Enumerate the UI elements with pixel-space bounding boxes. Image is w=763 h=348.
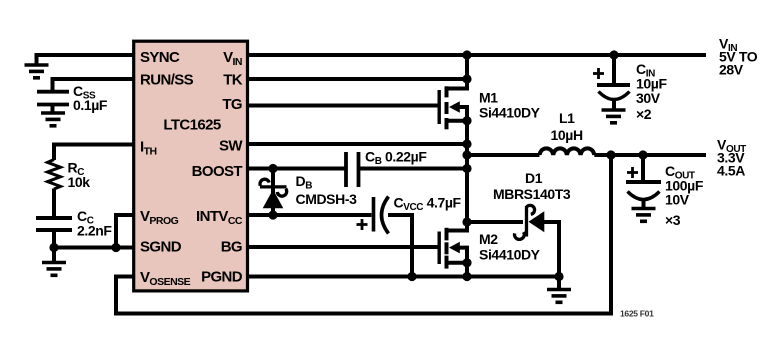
svg-text:TG: TG (222, 96, 242, 113)
wire RUN/SS pin to CSS (53, 79, 134, 91)
svg-text:CMDSH-3: CMDSH-3 (296, 191, 358, 207)
inductor L1 10uH (540, 148, 595, 155)
svg-text:10k: 10k (68, 174, 91, 190)
diode DB CMDSH-3 (BOOST to INTVCC) (260, 169, 287, 216)
wire CC to ground (52, 232, 56, 263)
svg-text:10V: 10V (665, 192, 690, 208)
svg-text:28V: 28V (719, 62, 744, 78)
svg-text:DB: DB (296, 173, 313, 192)
junction M1 source / SW node (462, 116, 471, 125)
wire BG pin to M2 gate (247, 245, 439, 249)
svg-text:×3: ×3 (665, 212, 681, 228)
svg-text:2.2nF: 2.2nF (77, 223, 112, 239)
junction feedback / VOUT rail (606, 150, 615, 159)
wire INTVCC pin to CVCC (247, 213, 372, 217)
svg-text:Si4410DY: Si4410DY (479, 105, 541, 121)
op-amp U1 LTC1625 controller body (134, 41, 248, 291)
capacitor CB 0.22uF (346, 152, 359, 187)
resistor RC 10k (48, 160, 61, 190)
capacitor CVCC 4.7uF (polarized) (374, 197, 389, 234)
plus sign COUT (627, 167, 638, 178)
junction L1 / SW node (462, 150, 471, 159)
svg-text:M2: M2 (479, 231, 498, 247)
ground (CC / SGND) (42, 263, 66, 276)
wire VPROG pin to SGND wire (116, 215, 133, 248)
plus sign CIN (593, 68, 604, 79)
capacitor COUT 100uF (polarized) (626, 155, 661, 209)
plus sign CVCC (357, 219, 368, 230)
wire BOOST pin to CB (247, 167, 346, 171)
svg-text:SW: SW (219, 138, 243, 155)
junction COUT / VOUT rail (638, 150, 647, 159)
svg-text:10µH: 10µH (551, 127, 583, 143)
transistor M2 Si4410DY (439, 228, 467, 269)
svg-text:BOOST: BOOST (192, 163, 243, 180)
capacitor CC 2.2nF (36, 218, 72, 230)
wire TG pin to M1 gate (247, 104, 439, 108)
junction VPROG / SGND (111, 243, 120, 252)
wire PGND rail (247, 275, 559, 279)
ground (COUT) (632, 209, 656, 222)
svg-text:0.1µF: 0.1µF (73, 97, 108, 113)
svg-text:SYNC: SYNC (140, 49, 180, 66)
svg-text:M1: M1 (479, 90, 498, 106)
ground (CIN) (602, 110, 626, 123)
svg-text:30V: 30V (636, 90, 661, 106)
junction DB anode / INTVCC (268, 210, 277, 219)
svg-text:RUN/SS: RUN/SS (140, 72, 194, 89)
wire CVCC to PGND rail (388, 215, 412, 277)
wire CB to SW node (359, 167, 468, 171)
wire SGND pin to ground node (54, 246, 133, 250)
svg-text:TK: TK (223, 72, 243, 89)
junction M2 source (462, 258, 471, 267)
wire ITH pin to RC (54, 145, 133, 161)
ground (CSS) (41, 113, 65, 126)
wire CSS to ground (51, 105, 55, 113)
junction D1 / SW node (462, 217, 471, 226)
svg-text:BG: BG (221, 239, 242, 256)
svg-text:SGND: SGND (140, 239, 182, 256)
junction TK / VIN branch (462, 74, 471, 83)
wire M2 body/source to PGND (460, 248, 468, 277)
junction SW pin / SW node (462, 139, 471, 148)
svg-text:MBRS140T3: MBRS140T3 (493, 186, 571, 202)
wire RC to CC (52, 189, 56, 217)
svg-text:PGND: PGND (201, 269, 243, 286)
junction D1 anode / PGND rail (554, 272, 563, 281)
svg-text:×2: ×2 (636, 106, 652, 122)
diode D1 MBRS140T3 (514, 205, 544, 239)
wire SW node to D1 (467, 220, 523, 224)
wire SYNC pin to ground (37, 55, 134, 65)
junction CVCC / PGND rail (407, 272, 416, 281)
svg-text:CVCC 4.7µF: CVCC 4.7µF (394, 195, 462, 214)
junction DB cathode / BOOST (268, 164, 277, 173)
svg-text:D1: D1 (525, 170, 543, 186)
capacitor CIN 10uF (polarized) (597, 55, 630, 110)
ground (SYNC) (25, 65, 49, 78)
capacitor CSS 0.1uF (37, 92, 69, 105)
junction M2 source / PGND rail (462, 272, 471, 281)
transistor M1 Si4410DY (439, 55, 467, 129)
junction CC / SGND / ground (49, 243, 58, 252)
svg-text:LTC1625: LTC1625 (163, 117, 220, 134)
wire D1 anode to ground (544, 222, 559, 290)
junction CIN / VIN rail (609, 50, 618, 59)
junction VIN rail / M1 drain branch (462, 50, 471, 59)
svg-text:4.5A: 4.5A (717, 163, 745, 179)
svg-text:L1: L1 (559, 110, 575, 126)
wire SW node vertical (M1 body/source down to M2 drain) (448, 107, 467, 231)
wire SW node to L1 (467, 153, 540, 157)
svg-text:CB 0.22µF: CB 0.22µF (365, 149, 427, 168)
wire VOUT rail (594, 153, 706, 157)
svg-text:1625 F01: 1625 F01 (620, 309, 654, 319)
junction CB / SW node (462, 164, 471, 173)
wire TK pin to VIN branch (247, 77, 467, 81)
wire VIN rail (247, 53, 706, 57)
wire VOSENSE feedback to VOUT rail (116, 155, 611, 314)
ground (D1 / PGND) (547, 290, 571, 303)
svg-text:Si4410DY: Si4410DY (479, 247, 541, 263)
wire SW pin to SW node (247, 142, 467, 146)
